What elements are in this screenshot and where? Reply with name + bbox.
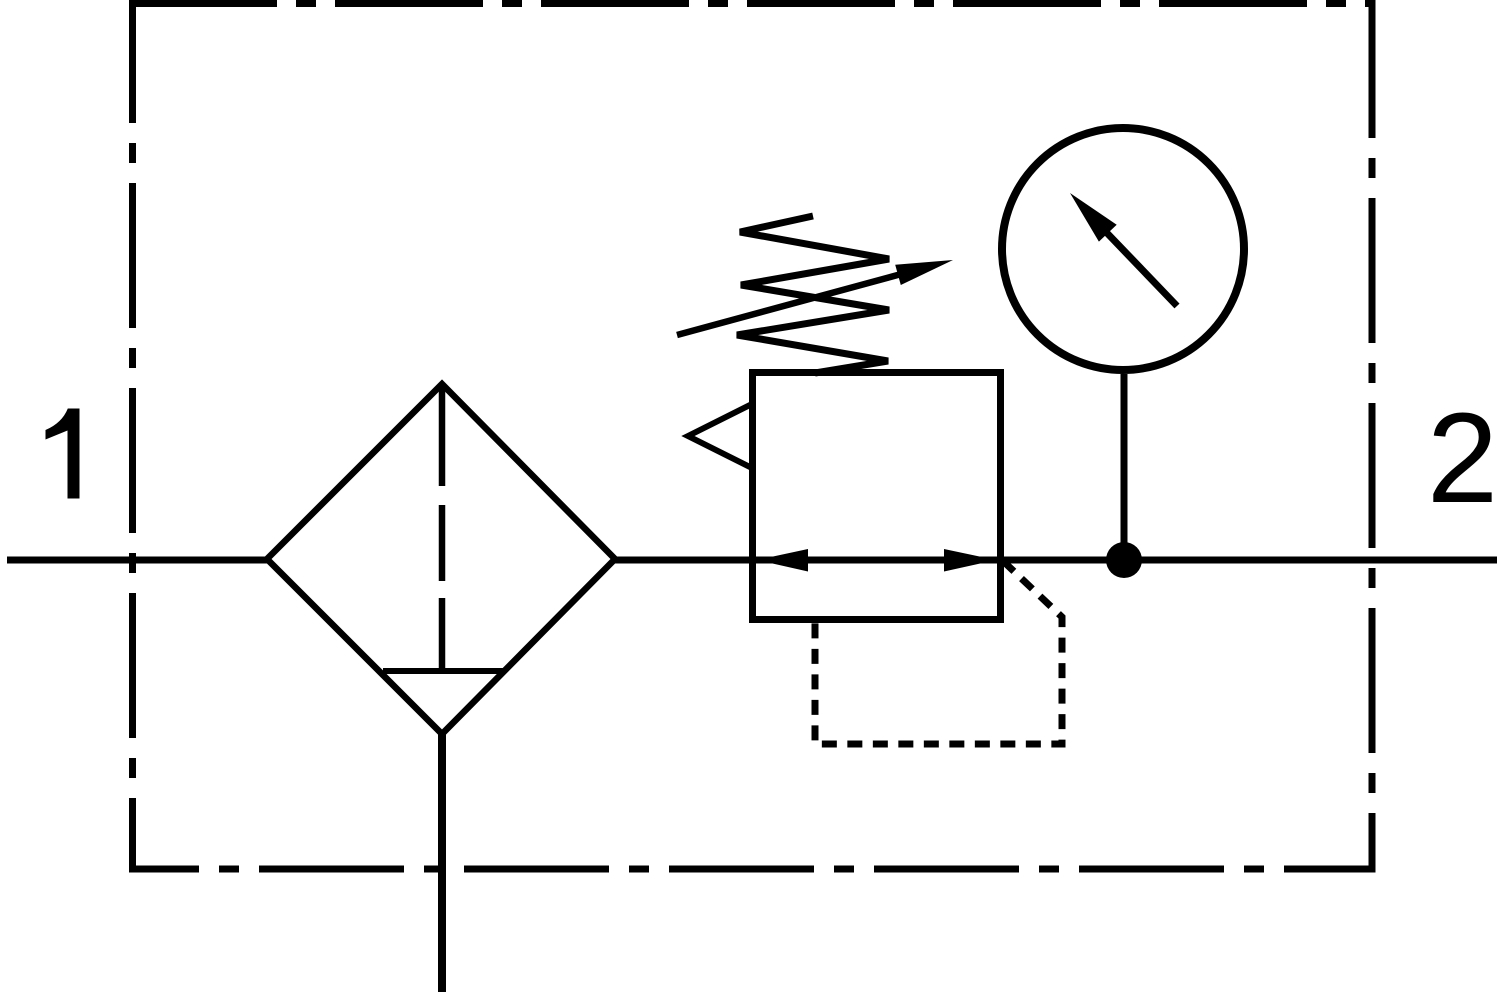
enclosure dash-dot border right	[1369, 4, 1376, 870]
gauge needle shaft	[1107, 233, 1177, 306]
gauge stem	[1121, 374, 1128, 559]
regulator pilot dashed line	[815, 561, 1062, 744]
filter F1 diamond body	[267, 384, 615, 734]
junction node on outlet line	[1106, 542, 1142, 578]
gauge needle head	[1070, 193, 1117, 242]
pressure gauge G1 body	[1002, 128, 1244, 370]
regulator R1 body box	[753, 373, 1001, 620]
regulator spring	[737, 216, 889, 373]
filter dashed center line	[439, 386, 446, 671]
flow arrow right head	[944, 549, 996, 572]
enclosure dash-dot border bottom	[129, 866, 1376, 873]
regulator relief vent triangle	[688, 404, 752, 468]
regulator adjustment arrow shaft	[677, 273, 905, 335]
regulator adjustment arrow head	[895, 260, 953, 285]
filter condensate separator line	[383, 668, 503, 674]
svg-text:2: 2	[1427, 387, 1498, 530]
enclosure dash-dot border left	[129, 4, 136, 870]
wire: inlet line port 1 to filter	[7, 557, 267, 564]
filter drain line	[438, 734, 446, 992]
wire: filter to regulator and outlet to port 2	[615, 557, 1497, 564]
flow arrow left head	[757, 549, 808, 572]
port label 1	[46, 409, 80, 499]
enclosure dash-dot border top	[129, 0, 1376, 7]
